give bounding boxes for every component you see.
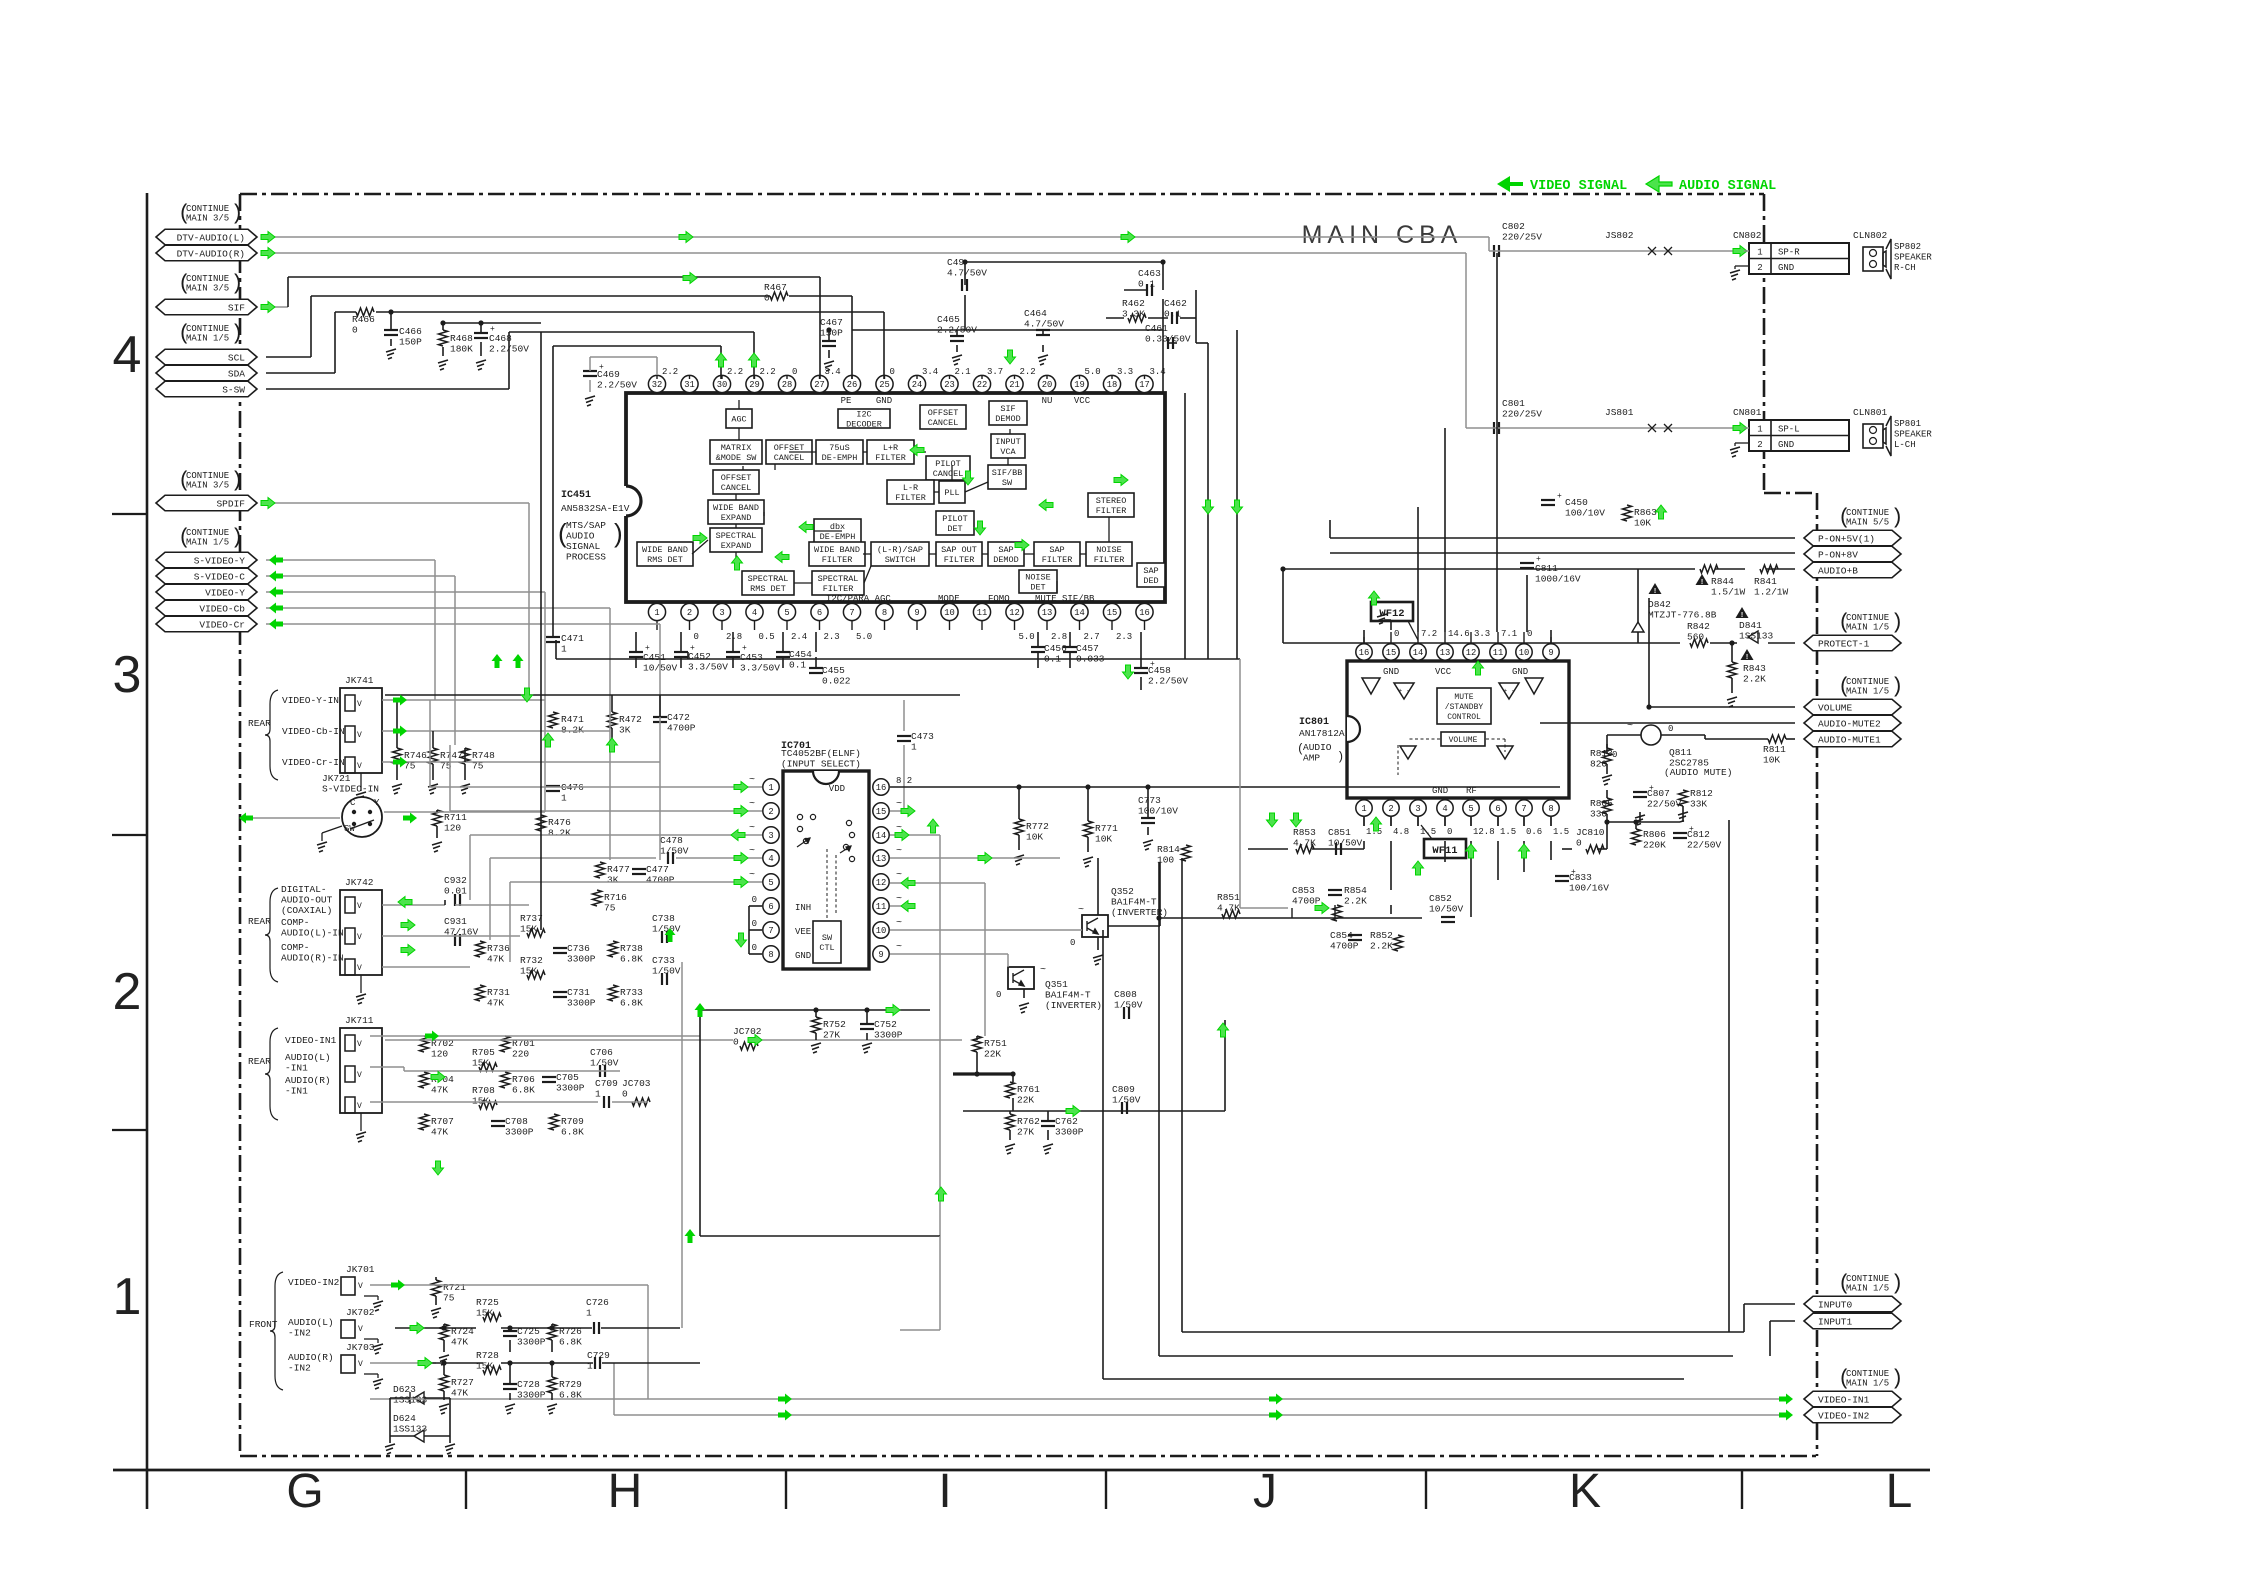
svg-text:R842: R842 [1687, 621, 1710, 632]
svg-text:FILTER: FILTER [1096, 506, 1127, 516]
svg-text:0: 0 [694, 632, 699, 642]
svg-text:13: 13 [1042, 608, 1053, 618]
svg-text:3.3/50V: 3.3/50V [688, 662, 728, 673]
svg-text:PE: PE [841, 396, 852, 406]
svg-text:30: 30 [717, 380, 728, 390]
svg-text:MATRIX: MATRIX [721, 443, 752, 453]
svg-text:220/25V: 220/25V [1502, 232, 1542, 243]
svg-text:SPECTRAL: SPECTRAL [716, 531, 757, 541]
svg-text:SAP: SAP [998, 545, 1013, 555]
svg-text:D841: D841 [1739, 620, 1762, 631]
node AUDIO-MUTE1 [1804, 731, 1901, 747]
svg-text:MUTE: MUTE [1454, 693, 1473, 702]
svg-text:7.1: 7.1 [1501, 629, 1517, 639]
svg-text:R476: R476 [548, 817, 571, 828]
svg-text:1.5/1W: 1.5/1W [1711, 587, 1746, 598]
svg-text:14: 14 [1413, 648, 1424, 658]
svg-text:8: 8 [1548, 804, 1553, 814]
svg-text:2: 2 [1388, 804, 1393, 814]
svg-text:8: 8 [768, 950, 773, 960]
svg-text:16: 16 [876, 783, 887, 793]
svg-text:DTV-AUDIO(R): DTV-AUDIO(R) [177, 248, 245, 259]
svg-text:R711: R711 [444, 812, 467, 823]
svg-text:0: 0 [752, 895, 757, 905]
svg-text:1: 1 [561, 793, 567, 804]
svg-text:STEREO: STEREO [1096, 496, 1127, 506]
svg-text:C731: C731 [567, 987, 590, 998]
svg-text:C466: C466 [399, 326, 422, 337]
svg-text:S-SW: S-SW [222, 384, 245, 395]
svg-text:V: V [357, 933, 362, 942]
svg-text:0: 0 [1394, 629, 1399, 639]
svg-text:0: 0 [752, 943, 757, 953]
svg-text:1: 1 [1757, 425, 1762, 435]
svg-text:DE-EMPH: DE-EMPH [820, 532, 856, 542]
svg-text:AUDIO(R): AUDIO(R) [288, 1352, 334, 1363]
svg-text:L-R: L-R [903, 483, 918, 493]
svg-text:R746: R746 [404, 750, 427, 761]
svg-text:32: 32 [652, 380, 663, 390]
svg-text:~: ~ [749, 823, 755, 834]
svg-text:28: 28 [782, 380, 793, 390]
svg-text:17: 17 [1139, 380, 1150, 390]
svg-text:NOISE: NOISE [1096, 545, 1122, 555]
svg-text:7: 7 [1521, 804, 1526, 814]
node DTV-AUDIO(R) [156, 245, 257, 261]
svg-text:5.0: 5.0 [1085, 367, 1101, 377]
svg-text:PLL: PLL [944, 488, 959, 498]
svg-text:Y: Y [374, 798, 380, 808]
svg-text:C809: C809 [1112, 1084, 1135, 1095]
svg-text:6: 6 [768, 902, 773, 912]
svg-text:4.7/50V: 4.7/50V [1024, 319, 1064, 330]
svg-text:~: ~ [749, 775, 755, 786]
svg-text:CANCEL: CANCEL [928, 418, 959, 428]
svg-text:100/16V: 100/16V [1569, 883, 1609, 894]
svg-text:SIF: SIF [228, 302, 245, 313]
svg-text:75uS: 75uS [829, 443, 849, 453]
svg-text:R468: R468 [450, 333, 473, 344]
svg-text:V: V [358, 1360, 363, 1369]
svg-text:~: ~ [749, 799, 755, 810]
waveform label WF12 [1371, 602, 1413, 621]
svg-text:R716: R716 [604, 892, 627, 903]
svg-text:220/25V: 220/25V [1502, 409, 1542, 420]
svg-text:C450: C450 [1565, 497, 1588, 508]
svg-text:SPDIF: SPDIF [216, 498, 245, 509]
signal wires (grey) [266, 236, 1489, 238]
svg-text:2.2/50V: 2.2/50V [597, 380, 637, 391]
transistor Q811 [1641, 725, 1661, 745]
svg-text:MTZJT-776.8B: MTZJT-776.8B [1648, 610, 1717, 621]
svg-text:): ) [231, 203, 244, 226]
svg-text:D842: D842 [1648, 599, 1671, 610]
svg-text:24: 24 [912, 380, 923, 390]
diode D624 [414, 1430, 424, 1442]
svg-text:I: I [938, 1465, 951, 1518]
svg-text:R844: R844 [1711, 576, 1734, 587]
svg-text:REAR: REAR [248, 1056, 271, 1067]
IC451 bottom pins [648, 603, 665, 620]
svg-text:VIDEO-Y: VIDEO-Y [205, 587, 245, 598]
svg-text:C709: C709 [595, 1078, 618, 1089]
svg-text:V: V [357, 964, 362, 973]
svg-text:C729: C729 [587, 1350, 610, 1361]
svg-text:VIDEO-IN2: VIDEO-IN2 [288, 1277, 340, 1288]
svg-text:VIDEO-IN1: VIDEO-IN1 [285, 1035, 337, 1046]
svg-text:~: ~ [749, 846, 755, 857]
svg-text:1: 1 [1757, 248, 1762, 258]
svg-text:SCL: SCL [228, 352, 245, 363]
svg-text:10K: 10K [1763, 755, 1780, 766]
svg-text:(AUDIO MUTE): (AUDIO MUTE) [1664, 767, 1732, 778]
svg-text:MAIN 1/5: MAIN 1/5 [1846, 1379, 1889, 1389]
svg-text:1.5: 1.5 [1553, 827, 1569, 837]
svg-text:C801: C801 [1502, 398, 1525, 409]
svg-text:R811: R811 [1763, 744, 1786, 755]
svg-text:V: V [357, 762, 362, 771]
svg-text:!: ! [1701, 579, 1703, 586]
node AUDIO+B [1804, 562, 1901, 578]
svg-text:SW: SW [1002, 478, 1013, 488]
svg-text:~: ~ [896, 918, 902, 929]
svg-text:R732: R732 [520, 955, 543, 966]
svg-text:R733: R733 [620, 987, 643, 998]
svg-text:R843: R843 [1743, 663, 1766, 674]
svg-text:COMP-: COMP- [281, 917, 310, 928]
svg-text:DEMOD: DEMOD [993, 555, 1019, 565]
svg-text:): ) [1891, 676, 1904, 699]
svg-text:1: 1 [113, 1268, 142, 1326]
svg-text:33K: 33K [1690, 799, 1707, 810]
svg-text:MAIN 1/5: MAIN 1/5 [1846, 1284, 1889, 1294]
svg-text:R841: R841 [1754, 576, 1777, 587]
svg-text:10K: 10K [1095, 834, 1112, 845]
svg-text:1: 1 [587, 1361, 593, 1372]
svg-text:4700P: 4700P [646, 875, 675, 886]
svg-text:47K: 47K [487, 954, 504, 965]
svg-text:JK742: JK742 [345, 877, 374, 888]
svg-text:AUDIO+B: AUDIO+B [1818, 565, 1858, 576]
svg-text:3300P: 3300P [556, 1083, 585, 1094]
svg-text:-IN1: -IN1 [285, 1063, 308, 1074]
svg-text:3: 3 [1415, 804, 1420, 814]
svg-text:16: 16 [1139, 608, 1150, 618]
svg-text:FILTER: FILTER [1094, 555, 1125, 565]
svg-text:+: + [645, 644, 650, 653]
svg-text:DED: DED [1143, 576, 1158, 586]
svg-text:+: + [599, 363, 604, 372]
svg-text:(COAXIAL): (COAXIAL) [281, 905, 332, 916]
svg-text:MAIN 5/5: MAIN 5/5 [1846, 518, 1889, 528]
svg-text:C465: C465 [937, 314, 960, 325]
svg-text:5.0: 5.0 [856, 632, 872, 642]
svg-text:AUDIO: AUDIO [1303, 742, 1332, 753]
svg-text:22/50V: 22/50V [1687, 840, 1722, 851]
svg-text:FRONT: FRONT [249, 1319, 278, 1330]
svg-text:R472: R472 [619, 714, 642, 725]
svg-text:VIDEO-IN2: VIDEO-IN2 [1818, 1410, 1870, 1421]
svg-text:R471: R471 [561, 714, 584, 725]
svg-text:C736: C736 [567, 943, 590, 954]
svg-text:JC702: JC702 [733, 1026, 762, 1037]
svg-text:C852: C852 [1429, 893, 1452, 904]
svg-text:1: 1 [768, 783, 773, 793]
svg-text:-IN1: -IN1 [285, 1086, 308, 1097]
svg-text:3.3: 3.3 [1474, 629, 1490, 639]
svg-text:VIDEO SIGNAL: VIDEO SIGNAL [1530, 179, 1627, 194]
svg-text:REAR: REAR [248, 718, 271, 729]
svg-text:C733: C733 [652, 955, 675, 966]
svg-text:4.8: 4.8 [1393, 827, 1409, 837]
svg-text:100/10V: 100/10V [1565, 508, 1605, 519]
svg-text:V: V [357, 902, 362, 911]
svg-text:GND: GND [1512, 667, 1528, 677]
svg-text:0: 0 [1447, 827, 1452, 837]
svg-text:AUDIO(R): AUDIO(R) [285, 1075, 331, 1086]
svg-text:~: ~ [1078, 905, 1084, 916]
svg-text:C471: C471 [561, 633, 584, 644]
svg-text:0: 0 [352, 325, 358, 336]
transistor Q351 [1008, 967, 1034, 989]
svg-text:2.1: 2.1 [955, 367, 971, 377]
svg-text:MODE: MODE [938, 594, 960, 604]
svg-text:PILOT: PILOT [942, 514, 968, 524]
svg-text:IC451: IC451 [561, 490, 591, 501]
svg-text:MAIN 3/5: MAIN 3/5 [186, 284, 229, 294]
svg-text:RMS DET: RMS DET [750, 584, 786, 594]
svg-text:1: 1 [561, 644, 567, 655]
svg-text:0: 0 [890, 367, 895, 377]
svg-text:1: 1 [911, 742, 917, 753]
svg-text:2.2K: 2.2K [1743, 674, 1766, 685]
svg-text:10: 10 [876, 926, 887, 936]
waveform label WF11 [1424, 839, 1466, 858]
svg-text:~: ~ [896, 870, 902, 881]
svg-text:BA1F4M-T: BA1F4M-T [1111, 897, 1157, 908]
svg-text:21: 21 [1009, 380, 1020, 390]
svg-text:3.4: 3.4 [922, 367, 938, 377]
svg-text:1: 1 [586, 1308, 592, 1319]
svg-text:31: 31 [684, 380, 695, 390]
svg-text:C461: C461 [1145, 323, 1168, 334]
svg-text:4700P: 4700P [667, 723, 696, 734]
svg-text:INPUT0: INPUT0 [1818, 1299, 1853, 1310]
svg-text:CN801: CN801 [1733, 407, 1762, 418]
svg-text:-IN2: -IN2 [288, 1328, 311, 1339]
svg-text:15K: 15K [520, 924, 537, 935]
svg-text:5: 5 [1468, 804, 1473, 814]
svg-text:3: 3 [719, 608, 724, 618]
svg-text:16: 16 [1359, 648, 1370, 658]
svg-text:CONTINUE: CONTINUE [186, 528, 229, 538]
svg-text:0: 0 [622, 1089, 628, 1100]
svg-text:CLN802: CLN802 [1853, 230, 1888, 241]
svg-text:R852: R852 [1370, 930, 1393, 941]
svg-text:NOISE: NOISE [1025, 573, 1051, 583]
node VIDEO-Cb [156, 600, 257, 616]
svg-text:0: 0 [1070, 938, 1075, 948]
svg-text:VEE: VEE [795, 927, 811, 937]
svg-text:SP802: SP802 [1894, 242, 1921, 252]
svg-text:6: 6 [817, 608, 822, 618]
svg-text:SPEAKER: SPEAKER [1894, 253, 1932, 263]
svg-text:3.3/50V: 3.3/50V [740, 663, 780, 674]
svg-text:C705: C705 [556, 1072, 579, 1083]
svg-text:Q351: Q351 [1045, 979, 1068, 990]
svg-text:): ) [231, 527, 244, 550]
svg-text:SP801: SP801 [1894, 419, 1921, 429]
svg-text:INPUT: INPUT [995, 437, 1021, 447]
svg-text:SPEAKER: SPEAKER [1894, 430, 1932, 440]
svg-text:C457: C457 [1076, 643, 1099, 654]
svg-text:12.8: 12.8 [1473, 827, 1495, 837]
svg-text:C467: C467 [820, 317, 843, 328]
svg-text:CONTINUE: CONTINUE [186, 274, 229, 284]
svg-text:10/50V: 10/50V [1328, 838, 1363, 849]
svg-text:R771: R771 [1095, 823, 1118, 834]
svg-text:EXPAND: EXPAND [721, 541, 752, 551]
svg-text:0: 0 [752, 919, 757, 929]
svg-text:AN5832SA-E1V: AN5832SA-E1V [561, 503, 630, 514]
svg-text:DECODER: DECODER [846, 420, 882, 430]
svg-text:C455: C455 [822, 665, 845, 676]
svg-text:): ) [231, 273, 244, 296]
svg-text:R812: R812 [1690, 788, 1713, 799]
svg-text:4700P: 4700P [1292, 896, 1321, 907]
svg-text:R709: R709 [561, 1116, 584, 1127]
svg-text:OFFSET: OFFSET [721, 473, 752, 483]
svg-text:13: 13 [1440, 648, 1451, 658]
svg-text:4: 4 [1442, 804, 1447, 814]
svg-text:CONTINUE: CONTINUE [186, 204, 229, 214]
svg-text:R-CH: R-CH [1894, 263, 1916, 273]
svg-text:VIDEO-Cb: VIDEO-Cb [199, 603, 245, 614]
svg-text:MAIN 3/5: MAIN 3/5 [186, 214, 229, 224]
svg-text:5: 5 [784, 608, 789, 618]
svg-text:20: 20 [1042, 380, 1053, 390]
svg-text:75: 75 [604, 903, 616, 914]
svg-text:+: + [1503, 688, 1507, 696]
svg-text:REAR: REAR [248, 916, 271, 927]
svg-text:C851: C851 [1328, 827, 1351, 838]
svg-text:AUDIO SIGNAL: AUDIO SIGNAL [1679, 179, 1776, 194]
svg-text:CONTINUE: CONTINUE [1846, 677, 1889, 687]
svg-text:VDD: VDD [829, 784, 845, 794]
svg-text:19: 19 [1074, 380, 1085, 390]
svg-text:L: L [1886, 1465, 1913, 1518]
svg-text:C853: C853 [1292, 885, 1315, 896]
svg-text:C932: C932 [444, 875, 467, 886]
svg-text:3.4: 3.4 [825, 367, 841, 377]
svg-text:VCA: VCA [1000, 447, 1016, 457]
svg-text:JK703: JK703 [346, 1342, 375, 1353]
svg-text:L+R: L+R [883, 443, 898, 453]
svg-text:R853: R853 [1293, 827, 1316, 838]
svg-text:10K: 10K [1634, 518, 1651, 529]
svg-text:MAIN 3/5: MAIN 3/5 [186, 481, 229, 491]
svg-text:): ) [1337, 750, 1344, 764]
svg-text:3300P: 3300P [505, 1127, 534, 1138]
svg-text:27K: 27K [823, 1030, 840, 1041]
svg-text:D623: D623 [393, 1384, 416, 1395]
svg-text:1SS133: 1SS133 [393, 1424, 428, 1435]
bottom ruler [113, 1469, 1930, 1472]
svg-text:FILTER: FILTER [822, 555, 853, 565]
svg-text:&MODE SW: &MODE SW [716, 453, 758, 463]
svg-text:SAP OUT: SAP OUT [941, 545, 977, 555]
svg-text:DIGITAL-: DIGITAL- [281, 884, 327, 895]
svg-text:15K: 15K [476, 1361, 493, 1372]
svg-text:12: 12 [876, 878, 887, 888]
svg-text:~: ~ [749, 870, 755, 881]
svg-text:S-VIDEO-C: S-VIDEO-C [194, 571, 246, 582]
svg-text:WIDE BAND: WIDE BAND [814, 545, 860, 555]
svg-text:6.8K: 6.8K [620, 998, 643, 1009]
svg-text:22: 22 [977, 380, 988, 390]
svg-text:C708: C708 [505, 1116, 528, 1127]
svg-text:): ) [231, 323, 244, 346]
svg-text:R748: R748 [472, 750, 495, 761]
svg-text:3: 3 [113, 646, 142, 704]
svg-text:2.4: 2.4 [791, 632, 807, 642]
svg-text:2: 2 [768, 807, 773, 817]
svg-text:1.5: 1.5 [1500, 827, 1516, 837]
svg-text:V: V [357, 1040, 362, 1049]
svg-text:R738: R738 [620, 943, 643, 954]
svg-text:J: J [1253, 1465, 1277, 1518]
svg-text:AUDIO-OUT: AUDIO-OUT [281, 895, 333, 906]
schematic dash-dot border [240, 193, 1764, 196]
svg-text:WIDE BAND: WIDE BAND [713, 503, 759, 513]
svg-text:R751: R751 [984, 1038, 1007, 1049]
svg-text:7.2: 7.2 [1421, 629, 1437, 639]
svg-text:+: + [1557, 492, 1562, 501]
svg-text:2.8: 2.8 [726, 632, 742, 642]
svg-text:0.1: 0.1 [789, 660, 806, 671]
svg-text:JK702: JK702 [346, 1307, 375, 1318]
svg-text:CONTINUE: CONTINUE [1846, 508, 1889, 518]
svg-text:CTL: CTL [819, 943, 834, 953]
svg-text:0: 0 [1576, 838, 1582, 849]
svg-text:27: 27 [814, 380, 825, 390]
svg-text:14: 14 [876, 831, 887, 841]
svg-text:R706: R706 [512, 1074, 535, 1085]
svg-text:CONTINUE: CONTINUE [1846, 1369, 1889, 1379]
diode D842 glyph [1632, 622, 1644, 632]
svg-text:7: 7 [768, 926, 773, 936]
svg-text:JK721: JK721 [322, 773, 351, 784]
svg-text:C49: C49 [947, 257, 964, 268]
svg-text:23: 23 [944, 380, 955, 390]
svg-text:180K: 180K [450, 344, 473, 355]
svg-text:27K: 27K [1017, 1127, 1034, 1138]
svg-text:): ) [614, 518, 623, 548]
svg-text:9: 9 [914, 608, 919, 618]
svg-text:220K: 220K [1643, 840, 1666, 851]
svg-text:1000/16V: 1000/16V [1535, 574, 1581, 585]
svg-text:GND: GND [1778, 263, 1794, 273]
svg-text:11: 11 [876, 902, 887, 912]
svg-text:4: 4 [768, 854, 773, 864]
svg-text:L-CH: L-CH [1894, 440, 1916, 450]
svg-text:0.5: 0.5 [759, 632, 775, 642]
svg-text:3300P: 3300P [567, 954, 596, 965]
junction dots [386, 349, 396, 359]
svg-text:+: + [1649, 784, 1654, 793]
svg-text:C728: C728 [517, 1379, 540, 1390]
svg-text:R806: R806 [1643, 829, 1666, 840]
